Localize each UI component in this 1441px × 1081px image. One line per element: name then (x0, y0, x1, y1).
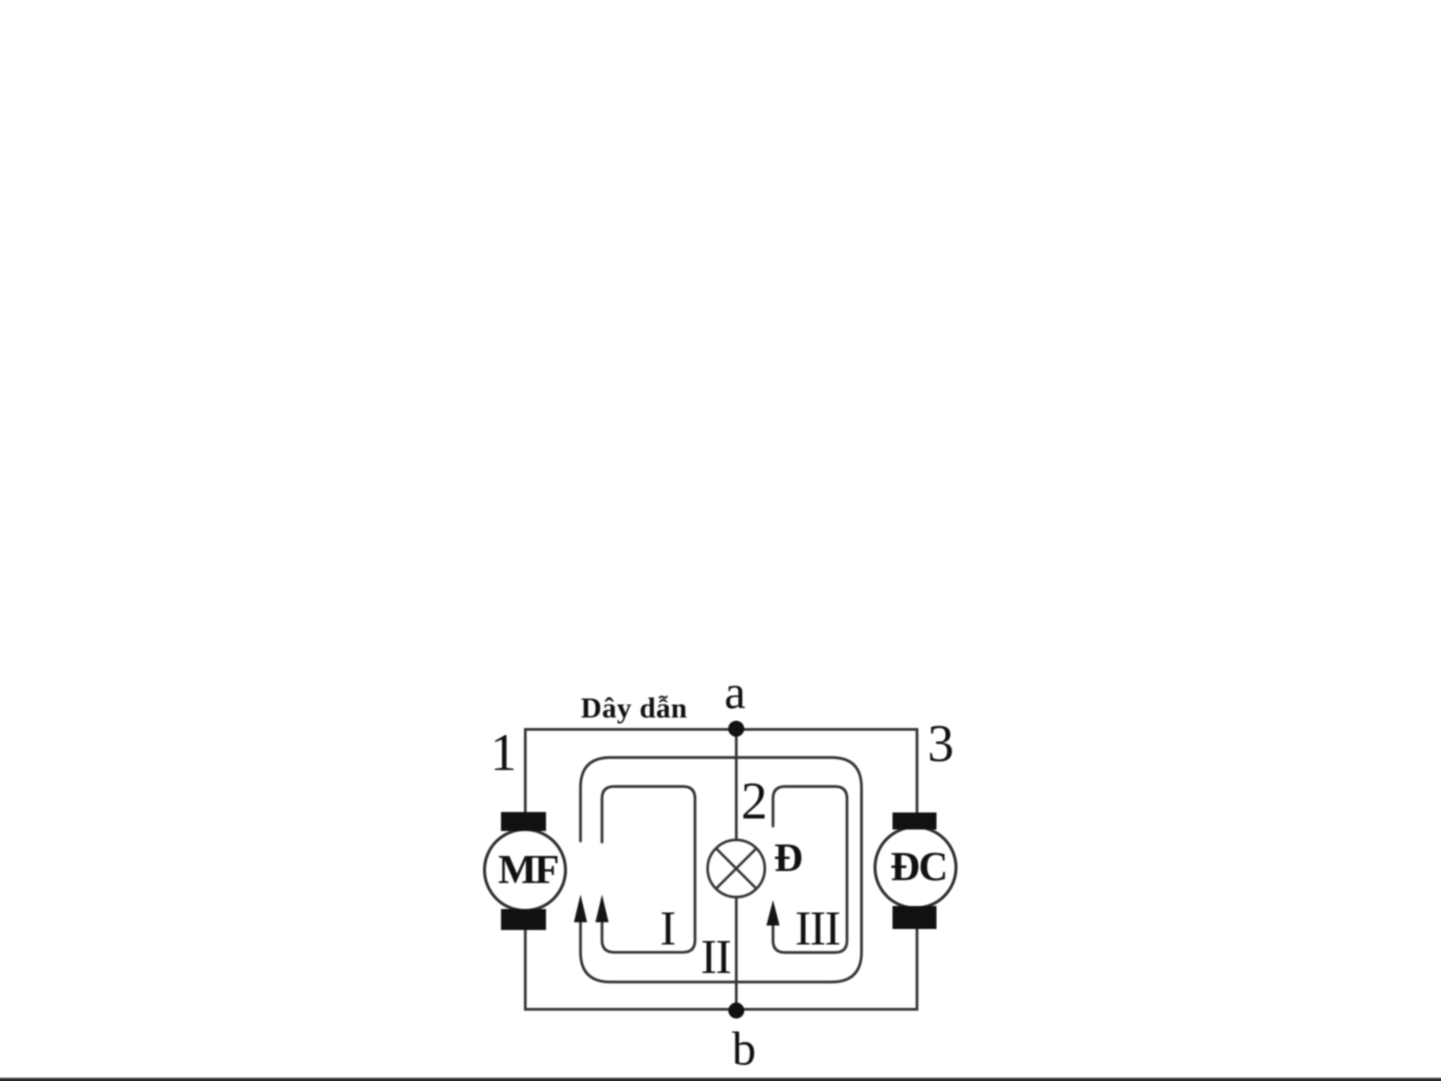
svg-text:Đ: Đ (774, 835, 803, 880)
svg-text:III: III (795, 901, 840, 956)
svg-text:3: 3 (927, 715, 954, 773)
svg-text:Dây dẫn: Dây dẫn (581, 693, 688, 725)
svg-text:1: 1 (490, 724, 517, 782)
svg-text:a: a (724, 666, 745, 719)
svg-text:II: II (701, 929, 731, 984)
svg-text:2: 2 (741, 773, 768, 831)
svg-text:I: I (660, 901, 676, 956)
svg-text:b: b (732, 1023, 756, 1076)
svg-text:MF: MF (498, 846, 558, 892)
svg-text:ĐC: ĐC (890, 843, 946, 889)
